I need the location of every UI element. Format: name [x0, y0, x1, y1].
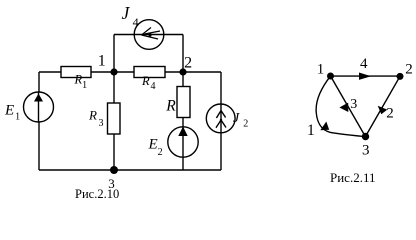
wire right branch lower vertical	[220, 133, 222, 170]
current source J4 arrow	[142, 28, 161, 40]
resistor R3	[108, 103, 121, 134]
wire E2 to bottom	[182, 157, 184, 170]
resistor R	[177, 87, 190, 118]
wire top-left horizontal (E1 branch top to R1)	[39, 71, 61, 73]
wire R4 to node 2	[165, 71, 183, 73]
graph edge 2 arrow	[378, 106, 388, 115]
wire J4 loop right vertical	[182, 35, 184, 73]
current source J2 circle	[206, 104, 235, 133]
svg-text:J: J	[233, 111, 240, 126]
svg-text:R: R	[165, 98, 176, 115]
svg-text:3: 3	[362, 143, 370, 159]
svg-text:E1: E1	[4, 103, 20, 123]
graph edge 4 arrow	[359, 73, 371, 80]
svg-text:1: 1	[317, 62, 325, 78]
graph edge 3 arrow	[339, 103, 348, 112]
svg-text:2: 2	[405, 61, 413, 77]
voltage source E1 circle	[24, 92, 54, 122]
voltage source E1 shaft	[38, 92, 40, 122]
wire E1 branch bottom vertical	[38, 122, 40, 170]
node 1	[110, 68, 117, 75]
svg-text:3: 3	[350, 97, 357, 112]
graph edge 1 (curved, node 3 to node 1)	[316, 76, 365, 137]
svg-text:J: J	[122, 3, 131, 23]
wire node 1 to R4	[114, 71, 134, 73]
graph node 3	[362, 133, 369, 140]
svg-text:2: 2	[243, 119, 248, 130]
resistor R1	[61, 67, 91, 78]
svg-text:4: 4	[133, 15, 139, 29]
svg-text:R4: R4	[141, 74, 155, 92]
svg-text:R3: R3	[88, 108, 103, 129]
wire node 2 to right branch	[183, 71, 221, 73]
graph edge 1 arrow	[320, 122, 329, 131]
current source J2 shaft	[220, 104, 222, 133]
voltage source E1 arrow	[34, 94, 43, 102]
voltage source E2 shaft	[182, 127, 184, 157]
graph edge 2 (node 3 to node 2)	[365, 76, 400, 136]
svg-text:Рис.2.11: Рис.2.11	[330, 170, 375, 185]
wire right branch upper vertical	[220, 72, 222, 104]
wire bottom horizontal	[39, 169, 221, 171]
voltage source E2 arrow	[178, 127, 187, 137]
svg-text:2: 2	[184, 55, 192, 72]
wire E1 branch top vertical	[38, 72, 40, 92]
svg-text:4: 4	[360, 56, 368, 72]
node 2	[179, 68, 186, 75]
svg-text:R1: R1	[74, 73, 88, 91]
wire node 1 down to R3	[113, 72, 115, 103]
voltage source E2 circle	[168, 127, 198, 157]
wire J4 loop top horizontal	[114, 34, 183, 36]
wire R1 to node 1	[91, 71, 114, 73]
current source J2 chevrons	[216, 111, 225, 119]
resistor R4	[134, 67, 165, 78]
wire node 2 down to R	[182, 72, 184, 87]
graph node 2	[397, 73, 404, 80]
current source J4 circle	[134, 20, 164, 50]
svg-text:2: 2	[386, 106, 394, 122]
svg-text:1: 1	[98, 53, 106, 70]
graph edge 4 (node 1 to node 2)	[331, 75, 401, 77]
svg-text:Рис.2.10: Рис.2.10	[75, 187, 119, 201]
wire R3 to node 3	[113, 134, 115, 170]
wire R to E2	[182, 118, 184, 128]
svg-text:E2: E2	[148, 137, 163, 159]
wire J4 loop left vertical	[113, 35, 115, 73]
node 3	[110, 166, 118, 174]
graph edge 3 (node 1 to node 3)	[331, 76, 366, 137]
graph node 1	[327, 73, 334, 80]
svg-text:1: 1	[307, 122, 315, 139]
